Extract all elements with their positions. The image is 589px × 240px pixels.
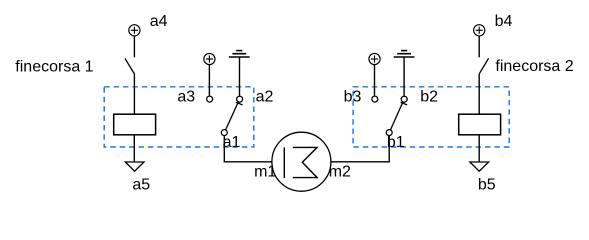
svg-text:finecorsa 1: finecorsa 1 bbox=[15, 58, 93, 75]
ground a5 bbox=[125, 162, 144, 171]
relay coil K2 (finecorsa 2) bbox=[459, 114, 501, 135]
earth symbol above a2 bbox=[229, 51, 250, 57]
switch finecorsa 1 (blade) bbox=[125, 58, 134, 73]
svg-text:m2: m2 bbox=[329, 163, 351, 180]
contact pin a1 bbox=[221, 130, 227, 136]
contact pin b2 bbox=[401, 96, 407, 102]
svg-text:b3: b3 bbox=[344, 89, 362, 106]
relay contact blade b2-b1 bbox=[391, 102, 403, 130]
relay contact blade a2-a1 bbox=[226, 102, 239, 130]
blade tail at a2 bbox=[236, 102, 243, 105]
wire b3 terminal to contact bbox=[374, 65, 376, 96]
contact pin b3 bbox=[372, 96, 378, 102]
terminal b4 bbox=[474, 25, 485, 36]
contact pin a3 bbox=[207, 96, 213, 102]
wire motor m2 to b1 bbox=[331, 136, 390, 162]
svg-text:b5: b5 bbox=[478, 177, 496, 194]
svg-text:a1: a1 bbox=[223, 134, 241, 151]
svg-text:a5: a5 bbox=[132, 177, 150, 194]
terminal a4 bbox=[129, 25, 140, 36]
motor M body bbox=[272, 132, 331, 191]
blade tail at b2 bbox=[401, 102, 408, 105]
wire switch to coil K2 bbox=[478, 74, 480, 115]
svg-text:a3: a3 bbox=[177, 89, 195, 106]
wire a4 to switch bbox=[133, 36, 135, 57]
contact pin b1 bbox=[386, 130, 392, 136]
contact pin a2 bbox=[237, 96, 243, 102]
relay coil K1 (finecorsa 1) bbox=[114, 114, 156, 135]
switch finecorsa 2 (blade) bbox=[479, 58, 488, 73]
wire coil K1 to ground bbox=[133, 135, 135, 162]
wire coil K2 to ground bbox=[478, 135, 480, 162]
wire switch to coil K1 bbox=[133, 74, 135, 115]
svg-text:finecorsa 2: finecorsa 2 bbox=[495, 58, 573, 75]
earth symbol above b2 bbox=[394, 51, 415, 57]
motor M glyph bbox=[284, 147, 317, 178]
svg-text:a2: a2 bbox=[256, 89, 274, 106]
dashed enclosure finecorsa-2 relay box bbox=[353, 87, 509, 147]
terminal a3 bbox=[204, 53, 215, 64]
wire earth to contact b2 bbox=[403, 57, 405, 96]
wire b4 to switch bbox=[478, 36, 480, 57]
dashed enclosure finecorsa-1 relay box bbox=[104, 87, 254, 147]
svg-text:b1: b1 bbox=[387, 134, 405, 151]
svg-text:a4: a4 bbox=[150, 13, 168, 30]
ground b5 bbox=[470, 162, 489, 171]
wire earth to contact a2 bbox=[239, 57, 241, 96]
wire a3 terminal to contact bbox=[208, 65, 210, 96]
terminal b3 bbox=[369, 53, 380, 64]
wire a1 to motor m1 bbox=[224, 136, 272, 162]
svg-text:b4: b4 bbox=[495, 13, 513, 30]
svg-text:b2: b2 bbox=[420, 89, 438, 106]
